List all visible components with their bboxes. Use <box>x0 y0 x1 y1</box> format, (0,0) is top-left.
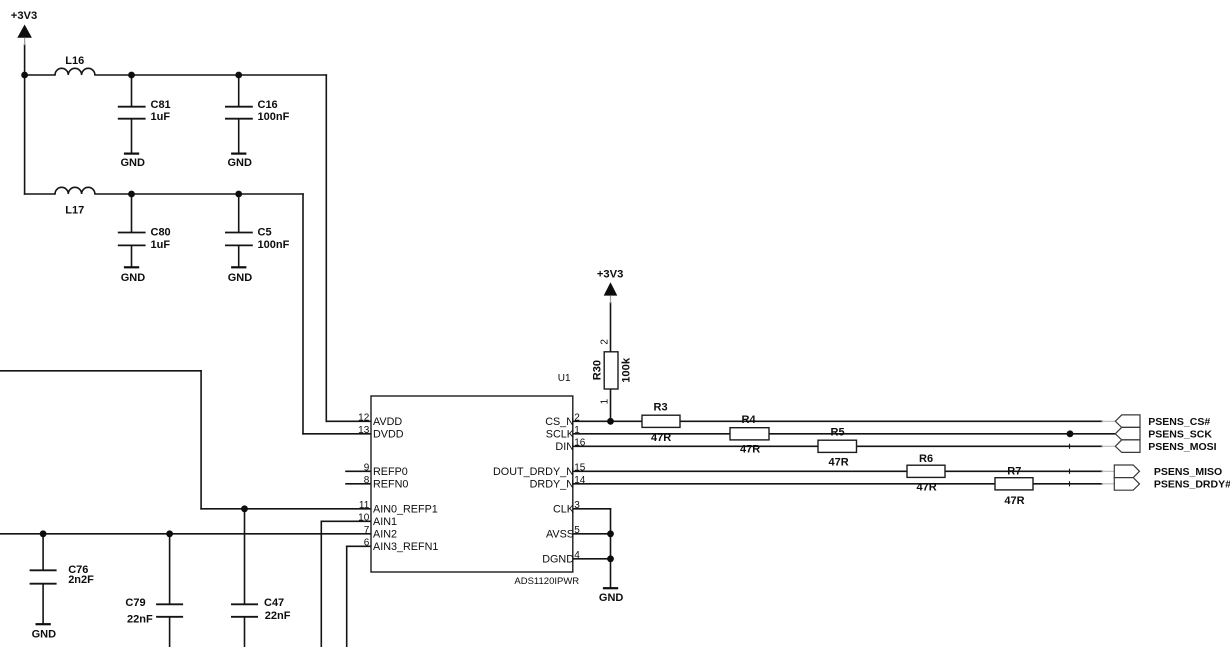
node C47 junction <box>241 505 248 512</box>
wire DRDY_N from R7 to port <box>1033 483 1102 485</box>
svg-text:C16: C16 <box>258 99 278 111</box>
wire AIN0_REFP1 net into pin 11 <box>201 508 371 510</box>
wire DOUT_DRDY_N from pin 15 to R6 <box>573 470 907 472</box>
svg-text:11: 11 <box>359 500 370 511</box>
port PSENS_CS# pennant <box>1115 415 1140 428</box>
wire AIN0_REFP1 net vertical <box>200 371 202 509</box>
svg-text:AVDD: AVDD <box>373 416 402 428</box>
svg-text:47R: 47R <box>917 481 937 493</box>
resistor R4 body <box>730 428 769 440</box>
wire DOUT_DRDY_N from R6 to port <box>945 470 1102 472</box>
svg-text:3: 3 <box>574 500 580 511</box>
node C79 junction <box>166 530 173 537</box>
svg-text:13: 13 <box>358 425 370 436</box>
wire R30 top stem <box>610 303 612 352</box>
capacitor C79 plates <box>156 604 183 617</box>
wire row1 from +3V3 to L16 <box>25 74 55 76</box>
wire C47 branch vertical upper <box>244 509 246 604</box>
wire DRDY_N from pin 14 to R7 <box>573 483 995 485</box>
svg-text:R7: R7 <box>1007 465 1021 477</box>
svg-text:12: 12 <box>358 412 370 423</box>
svg-text:DOUT_DRDY_N: DOUT_DRDY_N <box>493 466 574 478</box>
svg-text:PSENS_MOSI: PSENS_MOSI <box>1148 441 1216 453</box>
svg-text:REFN0: REFN0 <box>373 478 408 490</box>
wire AIN3_REFN1 horizontal into pin 6 <box>347 545 371 547</box>
svg-text:47R: 47R <box>651 432 671 444</box>
svg-text:2n2F: 2n2F <box>68 574 94 586</box>
svg-text:DRDY_N: DRDY_N <box>530 478 574 490</box>
wire C81 upper stub <box>131 75 133 106</box>
svg-text:9: 9 <box>364 462 370 473</box>
node C80 junction <box>128 191 135 198</box>
svg-text:1: 1 <box>600 398 611 404</box>
node R30 / CS_N junction <box>607 418 614 425</box>
node C76 junction <box>40 530 47 537</box>
svg-text:+3V3: +3V3 <box>597 268 623 280</box>
wire C80 lower stub to GND <box>131 246 133 266</box>
wire DVDD into pin 13 <box>303 433 371 435</box>
wire AVDD vertical drop <box>325 75 327 421</box>
svg-text:14: 14 <box>574 475 586 486</box>
svg-text:REFP0: REFP0 <box>373 466 408 478</box>
svg-text:GND: GND <box>228 272 253 284</box>
svg-text:22nF: 22nF <box>127 614 153 626</box>
svg-text:L16: L16 <box>65 55 84 67</box>
wire C76 upper stub <box>42 534 44 570</box>
ground below C76 <box>36 623 51 625</box>
svg-text:1uF: 1uF <box>151 239 171 251</box>
svg-text:5: 5 <box>574 525 580 536</box>
capacitor C5 plates <box>225 233 253 246</box>
svg-text:C79: C79 <box>125 597 145 609</box>
svg-text:PSENS_CS#: PSENS_CS# <box>1148 416 1210 428</box>
resistor R6 body <box>907 465 945 477</box>
wire CS_N from pin 2 to R3 <box>573 420 642 422</box>
wire DVDD vertical drop <box>302 194 304 434</box>
svg-text:DGND: DGND <box>542 553 574 565</box>
svg-text:CS_N: CS_N <box>545 416 574 428</box>
svg-text:10: 10 <box>358 512 370 523</box>
svg-text:R6: R6 <box>919 453 933 465</box>
inductor L16 <box>55 68 95 75</box>
svg-text:47R: 47R <box>829 456 849 468</box>
svg-text:47R: 47R <box>740 444 760 456</box>
op-amp U1 ADS1120IPWR body <box>371 396 573 572</box>
svg-text:7: 7 <box>364 525 370 536</box>
wire CS_N from R3 to port <box>680 420 1102 422</box>
ground below C80 <box>124 266 139 268</box>
wire AIN3_REFN1 vertical to bottom edge <box>346 546 348 647</box>
svg-text:C80: C80 <box>151 226 171 238</box>
wire CLK/AVSS/DGND vertical to GND <box>610 509 612 587</box>
svg-text:15: 15 <box>574 462 586 473</box>
wire DIN from pin 16 to R5 <box>573 445 818 447</box>
wire REFN0 stub pin 8 <box>346 483 371 485</box>
wire row2 from rail to L17 <box>25 193 55 195</box>
wire C79 branch vertical upper <box>169 534 171 604</box>
wire AVSS from pin 5 <box>573 533 611 535</box>
wire DGND from pin 4 <box>573 558 611 560</box>
port PSENS_MOSI pennant <box>1115 440 1140 453</box>
svg-text:DVDD: DVDD <box>373 428 404 440</box>
svg-text:+3V3: +3V3 <box>11 10 37 22</box>
svg-text:GND: GND <box>121 272 146 284</box>
wire REFP0 stub pin 9 <box>346 470 371 472</box>
inductor L17 <box>55 187 95 194</box>
wire C81 lower stub to GND <box>131 120 133 153</box>
resistor R30 body <box>604 352 618 389</box>
junction tick on DRDY line <box>1069 482 1071 486</box>
svg-text:47R: 47R <box>1004 495 1024 507</box>
wire AIN1 horizontal into pin 10 <box>321 520 371 522</box>
svg-text:DIN: DIN <box>555 441 574 453</box>
svg-text:16: 16 <box>574 437 586 448</box>
svg-text:GND: GND <box>32 629 56 641</box>
svg-text:C5: C5 <box>258 226 272 238</box>
wire SCLK from R4 to port <box>769 433 1115 435</box>
svg-text:C81: C81 <box>151 99 171 111</box>
svg-text:2: 2 <box>574 412 580 423</box>
svg-text:6: 6 <box>364 537 370 548</box>
svg-text:100nF: 100nF <box>258 111 290 123</box>
svg-text:U1: U1 <box>558 373 571 384</box>
port PSENS_SCK pennant <box>1115 427 1140 440</box>
ground below C5 <box>231 266 246 268</box>
svg-text:PSENS_DRDY#: PSENS_DRDY# <box>1154 479 1230 491</box>
wire SCLK from pin 1 to R4 <box>573 433 730 435</box>
svg-text:R5: R5 <box>831 427 845 439</box>
node DGND junction <box>607 555 614 562</box>
svg-text:100k: 100k <box>621 357 633 383</box>
wire AIN2 net horizontal from left edge <box>0 533 371 535</box>
svg-text:PSENS_MISO: PSENS_MISO <box>1154 466 1222 478</box>
wire AIN1 vertical to bottom edge <box>320 521 322 647</box>
node AVSS junction <box>607 530 614 537</box>
node C81 junction <box>128 72 135 79</box>
wire row2 from L17 to DVDD turn <box>95 193 303 195</box>
wire C79 branch vertical lower <box>169 618 171 647</box>
wire R30 bottom stem to CS_N junction <box>610 389 612 421</box>
svg-text:PSENS_SCK: PSENS_SCK <box>1148 429 1212 441</box>
svg-text:1uF: 1uF <box>151 111 171 123</box>
resistor R5 body <box>818 440 857 452</box>
capacitor C76 plates <box>30 570 57 583</box>
wire C16 lower stub to GND <box>238 120 240 153</box>
ground below C16 <box>231 153 246 155</box>
wire AVDD into pin 12 <box>326 420 371 422</box>
svg-text:GND: GND <box>121 157 146 169</box>
wire AIN0_REFP1 net horizontal from left edge <box>0 370 201 372</box>
wire +3V3 rail vertical top-left <box>24 45 26 195</box>
resistor R3 body <box>642 415 680 427</box>
svg-text:AIN0_REFP1: AIN0_REFP1 <box>373 503 438 515</box>
node SCLK junction <box>1067 430 1074 437</box>
node +3V3 / L16 junction <box>21 72 28 79</box>
wire DIN from R5 to port <box>857 445 1103 447</box>
svg-text:2: 2 <box>599 339 610 345</box>
svg-text:AVSS: AVSS <box>546 528 574 540</box>
svg-text:L17: L17 <box>65 204 84 216</box>
ground below C81 <box>124 153 139 155</box>
svg-text:1: 1 <box>574 425 580 436</box>
wire C5 upper stub <box>238 194 240 232</box>
capacitor C81 plates <box>118 107 146 119</box>
svg-text:AIN1: AIN1 <box>373 516 397 528</box>
wire C5 lower stub to GND <box>238 246 240 266</box>
port PSENS_DRDY# pennant <box>1114 478 1139 491</box>
node C16 junction <box>235 72 242 79</box>
junction tick on DOUT line <box>1069 469 1071 473</box>
svg-text:C47: C47 <box>264 597 284 609</box>
svg-text:22nF: 22nF <box>265 610 291 622</box>
wire C80 upper stub <box>131 194 133 232</box>
svg-text:AIN2: AIN2 <box>373 528 397 540</box>
port PSENS_MISO pennant <box>1114 465 1139 478</box>
wire CLK from pin 3 <box>573 508 611 510</box>
svg-text:SCLK: SCLK <box>546 428 575 440</box>
capacitor C80 plates <box>118 233 146 246</box>
junction tick on DIN line <box>1069 444 1071 448</box>
power +3V3 arrow above R30 <box>604 282 618 303</box>
svg-text:R30: R30 <box>592 360 604 380</box>
svg-text:R4: R4 <box>742 414 757 426</box>
svg-text:ADS1120IPWR: ADS1120IPWR <box>514 576 579 587</box>
ground below DGND <box>603 587 618 589</box>
wire C47 branch vertical lower <box>244 618 246 647</box>
svg-text:GND: GND <box>228 157 253 169</box>
node C5 junction <box>235 191 242 198</box>
svg-text:R3: R3 <box>654 401 668 413</box>
svg-text:CLK: CLK <box>553 503 575 515</box>
capacitor C47 plates <box>231 604 258 617</box>
resistor R7 body <box>995 478 1033 490</box>
svg-text:100nF: 100nF <box>258 239 290 251</box>
wire C76 lower stub to GND <box>42 585 44 624</box>
capacitor C16 plates <box>225 107 253 119</box>
power +3V3 arrow top-left <box>17 25 32 46</box>
svg-text:8: 8 <box>364 475 370 486</box>
svg-text:GND: GND <box>599 592 624 604</box>
wire row1 from L16 to AVDD turn <box>95 74 326 76</box>
svg-text:AIN3_REFN1: AIN3_REFN1 <box>373 541 438 553</box>
svg-text:4: 4 <box>574 550 580 561</box>
wire C16 upper stub <box>238 75 240 106</box>
